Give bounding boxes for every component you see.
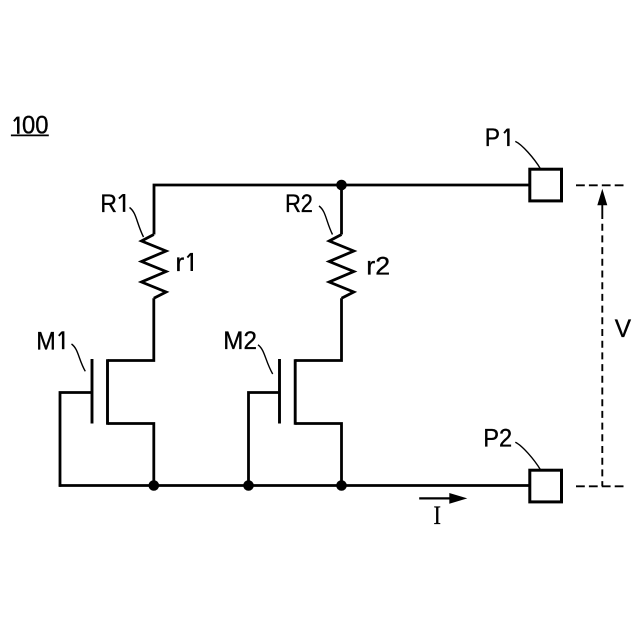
dashed extension line from P2 [576, 485, 624, 487]
current arrow I [419, 493, 467, 504]
transistor M2 gate bar [278, 359, 281, 424]
dimension arrow V (arrowhead) [597, 189, 607, 206]
resistor R1 [142, 235, 167, 299]
svg-text:r: r [176, 249, 185, 277]
svg-text:R2: R2 [285, 190, 313, 218]
node junction bottom M2 source [336, 480, 347, 491]
resistor R2 [329, 235, 354, 299]
transistor M1 gate bar [91, 359, 94, 424]
leader R1 [130, 208, 144, 238]
svg-text:V: V [615, 315, 632, 343]
wire bottom rail [59, 484, 530, 487]
wire R2 top (junction to resistor) [340, 185, 343, 235]
svg-text:P: P [485, 124, 500, 152]
leader P2 [515, 442, 541, 470]
node junction top (R2 tap) [336, 180, 347, 191]
transistor M1 channel bar [106, 359, 109, 425]
figure label 100 [11, 112, 49, 140]
svg-text:M2: M2 [223, 327, 257, 355]
terminal P2 [530, 470, 562, 502]
dimension line V (dashed vertical) [601, 204, 603, 212]
svg-text:I: I [434, 500, 441, 530]
transistor M2 channel bar [294, 359, 297, 425]
node junction bottom M2 gate [243, 480, 254, 491]
wire M1 gate to bottom rail [60, 393, 92, 487]
svg-text:R: R [100, 190, 117, 218]
wire R2 bottom to M2 drain [295, 298, 341, 360]
wire R1 bottom to M1 drain [108, 298, 154, 360]
svg-text:M: M [36, 327, 56, 355]
wire M1 source to bottom rail [108, 424, 154, 486]
leader P1 [515, 141, 541, 169]
wire top rail (R1 top to P1) [154, 185, 530, 235]
svg-text:r2: r2 [366, 253, 390, 281]
leader R2 [319, 206, 333, 235]
terminal P1 [530, 169, 562, 201]
node junction bottom M1 source [149, 480, 160, 491]
svg-text:P2: P2 [483, 425, 512, 453]
wire M2 gate to bottom rail [249, 393, 280, 487]
leader M1 [72, 344, 86, 371]
wire M2 source to bottom rail [295, 424, 341, 486]
leader M2 [258, 345, 273, 374]
dashed extension line from P1 [576, 184, 624, 186]
